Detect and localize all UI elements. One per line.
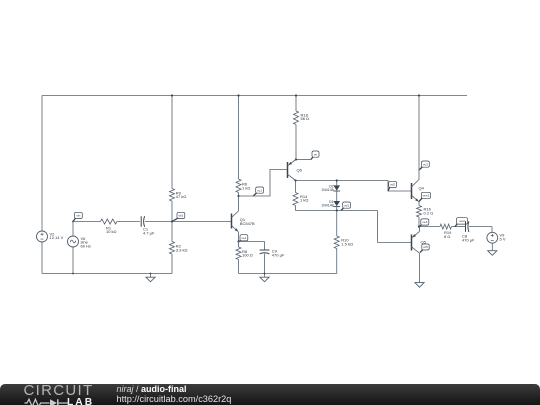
wire left bottom rail xyxy=(42,273,172,275)
wire R14 bottom to Q5 base (vd1 net) xyxy=(296,211,412,243)
svg-text:10 kΩ: 10 kΩ xyxy=(106,229,117,234)
svg-text:vc5: vc5 xyxy=(423,245,428,249)
node vee1 (Q4 emitter) xyxy=(419,192,431,201)
wire Q6 collector to Q4 base (vd2 net) xyxy=(294,179,411,191)
voltage source V2 12.14 V xyxy=(37,96,64,274)
wire top supply rail xyxy=(42,95,467,97)
CircuitLab logo text xyxy=(24,382,94,399)
svg-text:4.7 µF: 4.7 µF xyxy=(143,230,155,235)
svg-text:vb1: vb1 xyxy=(178,214,183,218)
transistor Q1 BC547B xyxy=(232,196,256,242)
resistor R16 0.2 xyxy=(417,206,434,227)
wire Q5 collector to ground xyxy=(419,253,421,282)
transistor Q5 (PNP output) xyxy=(412,227,427,254)
svg-text:12.14 V: 12.14 V xyxy=(50,235,64,240)
svg-text:vc2: vc2 xyxy=(423,162,428,166)
wire output row xyxy=(419,227,492,233)
node vc1 xyxy=(237,187,263,197)
svg-text:ve: ve xyxy=(314,152,318,156)
wire middle bottom rail xyxy=(239,273,337,275)
svg-text:Q4: Q4 xyxy=(419,186,425,191)
transistor Q6 (PNP VAS) xyxy=(288,160,303,181)
voltage source V6 sine 60 Hz xyxy=(68,222,91,275)
voltage source V9 5 V xyxy=(487,232,506,250)
resistor R1 10 k xyxy=(101,219,117,234)
node vc2 (Q4 collector rail) xyxy=(419,161,429,170)
resistor R8 100 xyxy=(236,242,253,274)
svg-text:8 Ω: 8 Ω xyxy=(444,234,450,239)
ground (output stage) xyxy=(415,283,424,288)
resistor R19 8 xyxy=(440,224,452,239)
node ve3 (output node) xyxy=(418,219,429,228)
CircuitLab logo zigzag-diode glyph xyxy=(22,397,92,405)
svg-text:1.5 kΩ: 1.5 kΩ xyxy=(341,241,353,246)
svg-text:1 kΩ: 1 kΩ xyxy=(242,185,250,190)
title line xyxy=(117,384,187,394)
svg-text:5 V: 5 V xyxy=(500,236,506,241)
svg-text:56 Ω: 56 Ω xyxy=(301,116,310,121)
svg-text:1N4148: 1N4148 xyxy=(321,188,333,192)
node vd1 xyxy=(341,202,351,211)
ground (first stage) xyxy=(260,273,269,282)
svg-text:BC547B: BC547B xyxy=(240,221,255,226)
footer bar xyxy=(0,384,540,405)
svg-text:vd2: vd2 xyxy=(390,183,395,187)
svg-text:1 kΩ: 1 kΩ xyxy=(300,198,308,203)
capacitor C9 470 uF xyxy=(260,249,285,274)
node vout xyxy=(455,218,468,227)
svg-text:Q6: Q6 xyxy=(297,167,303,172)
node ve1 xyxy=(237,235,247,243)
svg-text:470 µF: 470 µF xyxy=(272,253,285,258)
svg-text:vee1: vee1 xyxy=(423,194,430,198)
svg-text:ve3: ve3 xyxy=(422,220,427,224)
LAB bold xyxy=(67,397,94,405)
svg-text:vc1: vc1 xyxy=(257,188,262,192)
capacitor C8 470 uF xyxy=(462,221,475,242)
diode D2 1N4148 xyxy=(321,179,340,201)
resistor R9 47 k xyxy=(170,94,187,221)
svg-text:vin: vin xyxy=(76,214,80,218)
node vin xyxy=(72,212,82,222)
svg-text:47 kΩ: 47 kΩ xyxy=(176,194,187,199)
svg-text:vout: vout xyxy=(459,219,465,223)
svg-text:60 Hz: 60 Hz xyxy=(81,244,91,249)
diode D1 1N4148 xyxy=(321,200,340,212)
svg-text:0.2 Ω: 0.2 Ω xyxy=(424,210,434,215)
resistor R6 1 k xyxy=(236,94,250,196)
node vc5 (Q5 collector) xyxy=(420,244,429,253)
resistor R14 1 k xyxy=(293,181,308,211)
node vd2 xyxy=(388,181,397,191)
node ve2 (Q6 emitter) xyxy=(295,151,319,161)
capacitor C1 4.7 uF xyxy=(141,216,155,235)
svg-text:ve1: ve1 xyxy=(241,236,246,240)
resistor R18 56 xyxy=(294,94,310,159)
resistor R2 3.3 k xyxy=(170,222,188,274)
wire vc1 to Q6 base xyxy=(239,170,288,197)
svg-text:3.3 kΩ: 3.3 kΩ xyxy=(176,248,188,253)
ground (V9) xyxy=(488,251,497,256)
transistor Q4 (NPN output) xyxy=(412,94,425,205)
url line xyxy=(117,394,232,404)
svg-text:470 µF: 470 µF xyxy=(462,237,475,242)
wire ve1 to C9 xyxy=(239,242,265,250)
wire input row xyxy=(73,221,232,223)
resistor R10 1.5 k xyxy=(334,211,353,274)
svg-text:1N4148: 1N4148 xyxy=(321,204,333,208)
node vb1 xyxy=(171,212,185,222)
svg-text:100 Ω: 100 Ω xyxy=(242,253,253,258)
ground (left input section) xyxy=(146,273,155,282)
svg-text:vd1: vd1 xyxy=(344,203,349,207)
